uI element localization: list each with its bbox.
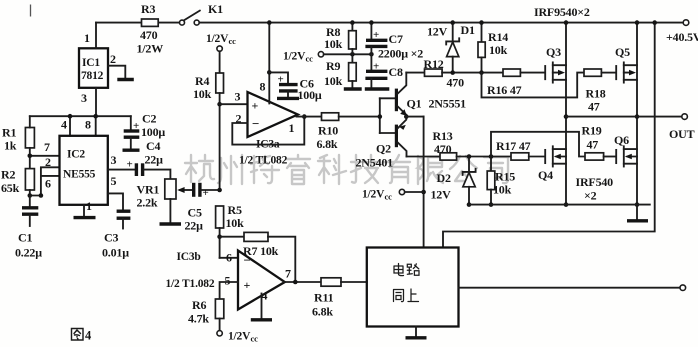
- junction dot R4/IC3a pin3: [217, 102, 222, 107]
- svg-text:C8: C8: [389, 65, 403, 79]
- svg-text:R1: R1: [2, 126, 16, 140]
- junction dot emitters: [404, 114, 424, 119]
- svg-text:6: 6: [226, 251, 232, 265]
- svg-text:Q6: Q6: [614, 133, 629, 147]
- svg-text:10k: 10k: [226, 216, 245, 230]
- resistor R12: [406, 57, 503, 90]
- svg-text:1/2V: 1/2V: [283, 51, 306, 63]
- svg-text:2.2k: 2.2k: [137, 196, 158, 210]
- svg-text:C5: C5: [188, 206, 202, 220]
- zener diode D2 12V: [431, 154, 476, 207]
- junction dot feedback node: [217, 234, 222, 239]
- wire IC1 pin1 to rail: [95, 23, 97, 49]
- svg-text:Q3: Q3: [546, 45, 561, 59]
- wire OUT rail: [566, 116, 682, 118]
- resistor R16: [487, 69, 544, 97]
- svg-text:R12: R12: [424, 57, 444, 71]
- svg-text:Q5: Q5: [615, 45, 630, 59]
- svg-text:2: 2: [45, 155, 51, 169]
- svg-text:cc: cc: [385, 192, 393, 202]
- wire 1/2Vcc to R8/R9 and C7/C8: [324, 52, 374, 57]
- svg-text:3: 3: [111, 153, 117, 167]
- svg-text:OUT: OUT: [669, 127, 695, 141]
- svg-text:IRF540: IRF540: [576, 175, 614, 189]
- svg-text:4: 4: [85, 329, 92, 343]
- block same-circuit box: [367, 248, 459, 327]
- svg-text:6.8k: 6.8k: [312, 305, 333, 319]
- wire IC1 pin3: [95, 88, 97, 116]
- svg-text:7812: 7812: [81, 70, 104, 82]
- svg-text:0.01μ: 0.01μ: [102, 246, 129, 260]
- svg-text:1/2V: 1/2V: [362, 189, 385, 201]
- svg-text:100μ: 100μ: [298, 88, 322, 102]
- svg-text:2N5551: 2N5551: [429, 97, 467, 111]
- wire Q1/Q2 base node: [378, 98, 383, 133]
- svg-text:R17 47: R17 47: [496, 139, 531, 153]
- resistor R9: [324, 59, 356, 88]
- wire IC3a pin3: [220, 90, 248, 105]
- svg-text:4: 4: [61, 118, 67, 132]
- wire top supply rail: [96, 22, 683, 24]
- svg-text:Q1: Q1: [407, 97, 422, 111]
- MOSFET Q4: [538, 146, 566, 182]
- svg-text:R4: R4: [195, 74, 209, 88]
- wire block output: [459, 287, 681, 289]
- svg-text:C7: C7: [389, 32, 403, 46]
- transistor Q2 2N5401: [356, 117, 407, 170]
- svg-text:+: +: [244, 278, 251, 292]
- svg-text:5: 5: [111, 174, 117, 188]
- svg-text:+: +: [252, 99, 259, 113]
- svg-text:6.8k: 6.8k: [317, 137, 338, 151]
- junction dots on Vcc node: [68, 114, 98, 119]
- capacitor C4 labels: [145, 139, 164, 167]
- svg-text:R19: R19: [582, 124, 602, 138]
- capacitor C8: [365, 61, 403, 88]
- capacitor C2: [123, 112, 166, 151]
- svg-text:R13: R13: [433, 129, 453, 143]
- ground below VR1: [160, 222, 182, 225]
- ground at source rail: [627, 205, 648, 221]
- resistor R10: [317, 113, 380, 151]
- svg-text:R15: R15: [495, 170, 515, 184]
- svg-text:1: 1: [86, 199, 92, 213]
- scan artifact mark top-left: [30, 5, 32, 17]
- svg-text:IC1: IC1: [82, 57, 100, 69]
- resistor R8: [324, 20, 356, 62]
- MOSFET Q3: [545, 45, 566, 83]
- svg-text:2200μ ×2: 2200μ ×2: [378, 47, 423, 61]
- wire IC3a output to R10: [297, 116, 322, 118]
- ground below block: [406, 327, 427, 338]
- wire IC3b pin5 to R6: [220, 282, 238, 299]
- svg-text:+: +: [278, 74, 284, 86]
- terminal +40.5V: [666, 20, 698, 44]
- svg-text:470: 470: [434, 142, 452, 156]
- capacitor C5: [185, 183, 220, 233]
- resistor R7 feedback: [220, 232, 296, 282]
- svg-text:D1: D1: [461, 23, 475, 37]
- svg-text:2N5401: 2N5401: [356, 156, 394, 170]
- wire IC2 pin1 and ground: [74, 205, 96, 218]
- svg-text:1/2W: 1/2W: [137, 42, 164, 56]
- capacitor C4: [127, 159, 143, 177]
- svg-text:C1: C1: [18, 231, 32, 245]
- svg-text:8: 8: [85, 118, 91, 132]
- IC1 7812 regulator: [79, 31, 116, 105]
- svg-text:Q2: Q2: [376, 142, 391, 156]
- svg-text:+40.5V: +40.5V: [666, 30, 698, 44]
- svg-text:IC2: IC2: [67, 149, 85, 161]
- svg-text:+: +: [133, 120, 139, 132]
- svg-text:1/2V: 1/2V: [228, 331, 251, 343]
- resistor R4: [193, 51, 224, 190]
- label IRF9540x2: [534, 5, 590, 19]
- svg-text:−: −: [252, 116, 259, 131]
- resistor R11: [312, 278, 367, 319]
- node 1/2Vcc terminal left: [206, 33, 236, 51]
- resistor R2: [1, 168, 34, 196]
- wire IC2 pin5 to C3: [108, 193, 123, 210]
- resistor R1: [2, 116, 34, 168]
- svg-text:C4: C4: [146, 139, 160, 153]
- MOSFET Q5: [615, 45, 637, 83]
- svg-text:1/2V: 1/2V: [206, 33, 229, 45]
- resistor R3: [137, 2, 164, 56]
- svg-text:470: 470: [447, 76, 465, 90]
- svg-text:+: +: [127, 159, 133, 171]
- svg-text:Q4: Q4: [538, 168, 553, 182]
- svg-text:5: 5: [225, 274, 231, 288]
- svg-text:2: 2: [110, 52, 116, 66]
- svg-text:cc: cc: [306, 54, 314, 64]
- svg-text:1: 1: [84, 31, 90, 45]
- label 同上: [394, 289, 419, 302]
- wires IC2 pins 2 and 6: [28, 155, 60, 198]
- svg-text:K1: K1: [208, 2, 223, 16]
- svg-text:R16 47: R16 47: [487, 83, 522, 97]
- svg-text:+: +: [373, 29, 379, 41]
- label IRF540 x2: [576, 175, 614, 203]
- wire IC3b output: [284, 280, 322, 285]
- svg-text:7: 7: [285, 267, 291, 281]
- svg-text:22μ: 22μ: [145, 153, 164, 167]
- svg-text:470: 470: [140, 28, 158, 42]
- svg-text:100μ: 100μ: [141, 125, 165, 139]
- svg-text:65k: 65k: [1, 181, 20, 195]
- capacitor C1: [15, 196, 42, 260]
- IC2 NE555: [60, 118, 117, 214]
- wire gate riser upper: [482, 73, 585, 98]
- watermark text 杭州将睿科技有限公司: [185, 155, 508, 184]
- svg-text:cc: cc: [229, 36, 237, 46]
- svg-text:IRF9540×2: IRF9540×2: [534, 5, 590, 19]
- svg-text:R11: R11: [314, 291, 334, 305]
- resistor R14: [478, 20, 508, 75]
- figure caption 图4: [72, 329, 93, 343]
- wire IC2 pin7: [28, 140, 60, 158]
- wire Q3 drain-source vertical: [564, 20, 569, 207]
- capacitor C7: [365, 20, 423, 70]
- svg-text:VR1: VR1: [137, 183, 160, 197]
- wire gate riser lower: [491, 132, 585, 157]
- svg-text:+: +: [373, 61, 379, 73]
- resistor R13: [433, 129, 512, 160]
- svg-text:8: 8: [260, 80, 266, 94]
- svg-text:R3: R3: [141, 2, 155, 16]
- VR1 wiper arrow: [177, 187, 193, 193]
- svg-text:4.7k: 4.7k: [188, 312, 209, 326]
- svg-text:22μ: 22μ: [185, 219, 204, 233]
- svg-text:6: 6: [45, 177, 51, 191]
- transistor Q1 2N5551: [380, 73, 466, 117]
- svg-text:1k: 1k: [4, 139, 17, 153]
- svg-text:10k: 10k: [193, 87, 212, 101]
- svg-text:1/2 T1.082: 1/2 T1.082: [166, 278, 215, 290]
- node 1/2Vcc terminal right: [362, 189, 424, 202]
- wire IC1 pin2: [108, 66, 125, 79]
- junction dot C5 node: [217, 188, 222, 193]
- wire source rail lower: [469, 204, 650, 206]
- svg-text:R14: R14: [488, 30, 508, 44]
- svg-text:R2: R2: [1, 168, 15, 182]
- capacitor C3: [102, 211, 130, 259]
- op-amp IC3a: [236, 80, 298, 167]
- wire IC3b pin4 and ground: [251, 294, 272, 320]
- label 电路: [394, 264, 419, 276]
- capacitor C6: [267, 70, 322, 102]
- wire Q2 collector to R13: [407, 156, 441, 158]
- wire IC3a feedback pin2 to output: [232, 114, 306, 144]
- ground below R9: [344, 87, 362, 90]
- ground at IC1 pin2: [117, 78, 134, 81]
- svg-text:10k: 10k: [493, 183, 512, 197]
- svg-text:10k: 10k: [324, 37, 343, 51]
- svg-text:IC3b: IC3b: [177, 251, 201, 263]
- svg-text:+: +: [203, 187, 209, 199]
- svg-text:C3: C3: [104, 231, 118, 245]
- svg-text:3: 3: [81, 91, 87, 105]
- svg-text:10k: 10k: [489, 43, 508, 57]
- MOSFET Q6: [614, 133, 637, 167]
- svg-text:×2: ×2: [584, 189, 597, 203]
- terminal OUT: [669, 114, 695, 141]
- wire Vcc node rail to IC2 pins 4,8: [30, 116, 131, 136]
- wire C4 to VR1: [144, 170, 171, 179]
- svg-text:1/2 TL082: 1/2 TL082: [239, 155, 288, 167]
- svg-text:47: 47: [587, 138, 599, 152]
- svg-text:0.22μ: 0.22μ: [15, 246, 42, 260]
- switch K1: [180, 2, 224, 25]
- op-amp IC3b: [166, 251, 292, 310]
- wire IC3b pin6: [220, 251, 238, 265]
- resistor R18: [584, 69, 615, 114]
- svg-text:7: 7: [44, 140, 50, 154]
- resistor R5: [216, 203, 245, 258]
- svg-text:1: 1: [289, 121, 295, 135]
- svg-text:−: −: [244, 253, 251, 268]
- potentiometer VR1: [137, 179, 177, 223]
- zener diode D1 12V: [427, 20, 475, 75]
- svg-text:C2: C2: [142, 112, 156, 126]
- svg-text:R9: R9: [326, 59, 340, 73]
- svg-text:NE555: NE555: [63, 169, 96, 181]
- wire emitter node down to lower block: [421, 117, 426, 248]
- svg-text:10k: 10k: [324, 74, 343, 88]
- node 1/2Vcc terminal mid: [283, 51, 324, 64]
- svg-text:3: 3: [235, 90, 241, 104]
- svg-text:R10: R10: [318, 124, 338, 138]
- resistor R19: [582, 124, 616, 161]
- svg-text:D2: D2: [437, 171, 451, 185]
- terminal lower output: [680, 285, 686, 291]
- svg-text:12V: 12V: [427, 25, 448, 39]
- wire IC3a pin8 to rail: [267, 20, 272, 103]
- svg-text:R5: R5: [228, 203, 242, 217]
- resistor R17: [496, 139, 544, 160]
- svg-text:12V: 12V: [431, 188, 452, 202]
- svg-text:R6: R6: [192, 298, 206, 312]
- ground below C8: [365, 87, 390, 90]
- wire IC2 pin3: [108, 169, 136, 171]
- svg-text:R18: R18: [586, 87, 606, 101]
- node 1/2Vcc terminal bottom: [217, 331, 258, 344]
- resistor R6: [188, 298, 224, 331]
- svg-text:47: 47: [588, 100, 600, 114]
- resistor R15: [487, 154, 515, 207]
- wire supply drop to lower block: [443, 20, 657, 247]
- svg-text:cc: cc: [251, 334, 259, 344]
- wire Q5 drain-source vertical: [635, 20, 640, 207]
